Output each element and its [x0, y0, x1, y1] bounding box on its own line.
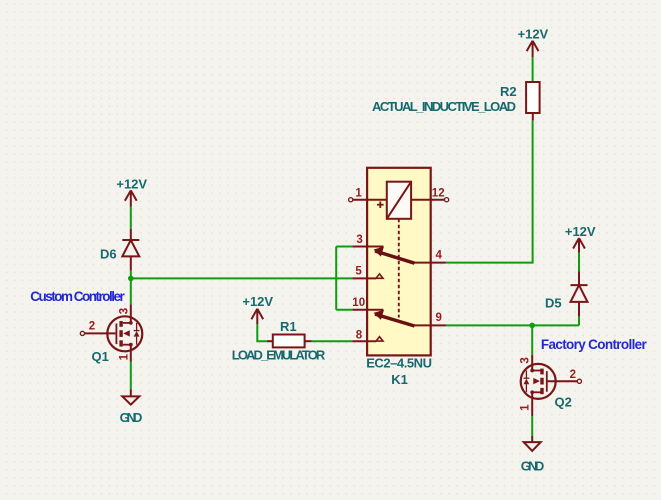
- power +12V (left): [125, 190, 137, 206]
- pin 9: [414, 324, 446, 326]
- svg-text:3: 3: [519, 357, 531, 363]
- svg-text:D5: D5: [545, 295, 562, 310]
- transistor Q2: [521, 355, 582, 417]
- svg-text:2: 2: [570, 369, 576, 381]
- svg-text:R2: R2: [500, 84, 517, 99]
- wire: [130, 207, 132, 229]
- wire: [578, 253, 580, 272]
- svg-text:GND: GND: [521, 459, 545, 474]
- pin 1: [353, 199, 387, 201]
- pin 8: [352, 340, 376, 342]
- resistor R2: [526, 82, 540, 113]
- wire main horizontal: [131, 277, 352, 279]
- wire: [446, 121, 533, 263]
- svg-text:12: 12: [432, 188, 445, 200]
- ground (right): [524, 436, 541, 451]
- resistor R1: [267, 335, 312, 348]
- node junction (right): [529, 323, 535, 329]
- svg-text:3: 3: [119, 308, 131, 314]
- svg-text:Q2: Q2: [555, 395, 572, 410]
- svg-text:ACTUAL_INDUCTIVE_LOAD: ACTUAL_INDUCTIVE_LOAD: [372, 99, 516, 114]
- pin 12: [411, 199, 444, 201]
- relay coil: [387, 182, 411, 219]
- svg-text:Factory Controller: Factory Controller: [541, 337, 648, 352]
- armature contact (top switch): [375, 251, 415, 263]
- power +12V (middle): [251, 309, 263, 324]
- power +12V (right): [573, 238, 585, 253]
- svg-text:3: 3: [356, 234, 362, 246]
- svg-text:Q1: Q1: [92, 349, 109, 364]
- wire: [578, 316, 580, 325]
- svg-text:+12V: +12V: [565, 224, 596, 239]
- wire: [312, 340, 353, 342]
- svg-text:+12V: +12V: [242, 294, 273, 309]
- power +12V (top): [527, 41, 539, 58]
- transistor Q1: [80, 305, 142, 362]
- svg-text:1: 1: [519, 404, 531, 411]
- diode D5: [571, 271, 588, 316]
- svg-text:1: 1: [119, 353, 131, 360]
- svg-text:10: 10: [352, 297, 365, 309]
- wire down to Q2: [531, 325, 533, 354]
- armature contact (bottom switch): [375, 314, 415, 326]
- svg-text:LOAD_EMULATOR: LOAD_EMULATOR: [232, 348, 326, 363]
- svg-text:5: 5: [355, 266, 362, 278]
- wire: [130, 362, 132, 390]
- node junction (left): [128, 276, 134, 282]
- wire: [257, 324, 267, 341]
- svg-text:4: 4: [435, 250, 442, 262]
- wire: [531, 416, 533, 436]
- pin 3: [352, 246, 383, 248]
- wire: [532, 57, 534, 82]
- svg-text:EC2–4.5NU: EC2–4.5NU: [366, 355, 432, 370]
- relay K1 body: [367, 168, 431, 356]
- wire pin9 net: [446, 324, 579, 326]
- wire bus vertical: [335, 247, 337, 310]
- mechanical link dashed: [398, 219, 400, 318]
- svg-text:K1: K1: [391, 372, 408, 387]
- plus mark: [377, 201, 384, 208]
- svg-text:8: 8: [356, 330, 363, 342]
- svg-text:1: 1: [355, 188, 362, 200]
- pin 4: [414, 262, 446, 264]
- ground (left): [122, 389, 139, 404]
- svg-text:2: 2: [89, 320, 95, 332]
- wire: [130, 271, 132, 305]
- svg-text:GND: GND: [120, 410, 143, 425]
- wire: [336, 246, 352, 248]
- svg-text:+12V: +12V: [518, 26, 549, 41]
- pin 5: [352, 277, 376, 279]
- svg-text:+12V: +12V: [116, 177, 147, 192]
- svg-text:R1: R1: [280, 319, 297, 334]
- diode D6: [122, 229, 139, 271]
- svg-text:D6: D6: [100, 247, 117, 262]
- svg-text:9: 9: [435, 312, 441, 324]
- pin 10: [352, 309, 383, 311]
- wire: [336, 309, 352, 311]
- svg-text:Custom Controller: Custom Controller: [30, 289, 125, 304]
